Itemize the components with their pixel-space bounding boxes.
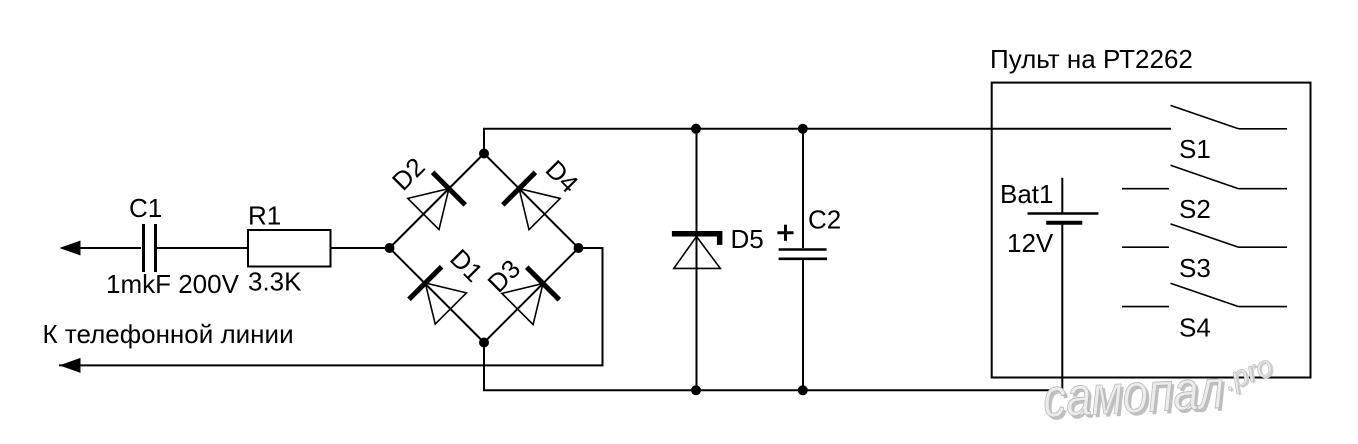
zener diode D5 (672, 129, 764, 391)
diode D2 (bridge arm left node to top node) (386, 152, 484, 248)
switch S3 (1122, 224, 1287, 283)
svg-text:12V: 12V (1007, 228, 1054, 258)
wire R1 to bridge left node (331, 247, 390, 249)
wire C1 to R1 (157, 247, 248, 249)
svg-text:D3: D3 (482, 254, 527, 299)
wire arrow to C1 (78, 247, 141, 249)
wire: bottom rail from bridge bottom node to battery (484, 343, 1063, 391)
diode D3 (bridge arm bottom node to right node) (482, 248, 579, 343)
node: bottom rail / C2 junction (798, 385, 808, 395)
svg-text:самопал: самопал (1041, 358, 1225, 429)
watermark samopal.pro (1041, 349, 1279, 432)
arrow to telephone line (upper) (59, 241, 80, 256)
arrow to telephone line (lower) (59, 358, 80, 373)
node: bridge DC minus bottom (479, 338, 489, 348)
switch S1 (1171, 105, 1288, 164)
svg-text:D1: D1 (444, 243, 489, 288)
node: bridge AC left (385, 243, 395, 253)
box: remote control on PT2262 (990, 44, 1311, 378)
wire: bridge right node to lower arrow line (59, 248, 603, 365)
node: bottom rail / D5 junction (691, 385, 701, 395)
svg-text:C2: C2 (808, 204, 841, 234)
switch S2 (1122, 165, 1287, 224)
capacitor C2 (777, 129, 841, 391)
switch S4 (1122, 283, 1287, 342)
svg-text:D4: D4 (540, 154, 585, 199)
battery Bat1 (1000, 178, 1098, 390)
node: bridge AC right (574, 243, 584, 253)
node: bridge DC plus top (479, 149, 489, 159)
svg-text:D2: D2 (386, 152, 431, 197)
svg-text:S4: S4 (1179, 313, 1211, 343)
svg-text:Пульт на РТ2262: Пульт на РТ2262 (990, 44, 1193, 74)
diode D4 (bridge arm right node to top node) (484, 154, 584, 249)
node: top rail / C2 junction (798, 124, 808, 134)
wire: top rail from bridge top node to switch S1 (484, 129, 1171, 154)
capacitor C1 (129, 193, 162, 272)
svg-text:К телефонной линии: К телефонной линии (43, 319, 294, 349)
svg-text:C1: C1 (129, 193, 162, 223)
node: top rail / D5 junction (691, 124, 701, 134)
svg-text:S2: S2 (1179, 194, 1211, 224)
svg-text:S1: S1 (1179, 134, 1211, 164)
svg-text:D5: D5 (731, 224, 764, 254)
svg-text:3.3K: 3.3K (248, 267, 302, 297)
svg-text:S3: S3 (1179, 253, 1211, 283)
resistor R1 (248, 200, 331, 266)
svg-text:1mkF 200V: 1mkF 200V (106, 269, 240, 299)
svg-text:.pro: .pro (1219, 350, 1277, 398)
svg-text:Bat1: Bat1 (1000, 179, 1054, 209)
diode D1 (bridge arm bottom node to left node) (390, 243, 489, 342)
svg-text:R1: R1 (248, 200, 281, 230)
